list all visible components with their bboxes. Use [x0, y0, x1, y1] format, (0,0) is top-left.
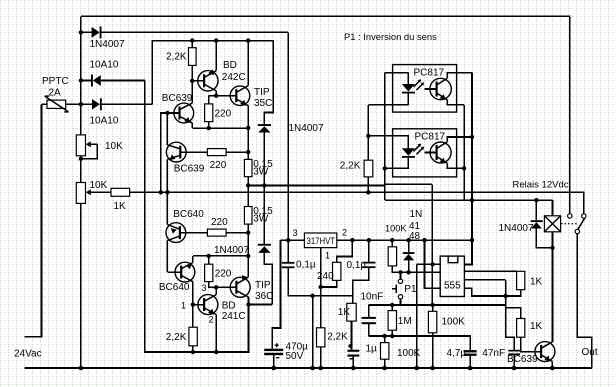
relay contact C common terminal — [575, 229, 579, 233]
LED of U1 — [402, 73, 415, 105]
node: bus junction dots — [79, 30, 84, 370]
node: U2 emitter junction on x=464 — [462, 166, 466, 170]
diode D5 1N4148 — [403, 240, 415, 274]
node: rail y=40.6 dots — [190, 38, 250, 42]
svg-text:2,2K: 2,2K — [166, 52, 187, 63]
svg-text:47nF: 47nF — [482, 348, 505, 359]
wire: control rail y=192.3 to relay contact B — [130, 192, 584, 214]
svg-text:Out: Out — [582, 347, 598, 358]
node: D6 top dot — [534, 198, 538, 202]
svg-text:10A10: 10A10 — [90, 59, 119, 70]
svg-text:PC817: PC817 — [414, 68, 445, 79]
svg-text:2A: 2A — [49, 88, 62, 99]
wire: 555 left pin y=264.3 from ground leg — [417, 264, 441, 368]
svg-text:10K: 10K — [105, 141, 123, 152]
svg-text:3: 3 — [293, 228, 298, 238]
node: ground leg rail dot — [414, 366, 419, 371]
resistor R1 1K horizontal — [111, 188, 130, 196]
node: y=128 dots — [207, 126, 251, 131]
light arrows U2 — [414, 144, 425, 155]
resistor R15 100K top — [388, 240, 408, 272]
svg-text:PPTC: PPTC — [42, 76, 69, 87]
node: Q2 emitter column dot at 220 row — [246, 150, 250, 154]
node: BD242C base junction — [190, 79, 194, 83]
wire: 555 output pin y=279.9 — [464, 280, 514, 350]
svg-text:BC640: BC640 — [173, 209, 204, 220]
capacitor C1 0,1u on x=288.2 — [282, 262, 353, 296]
node: Q1 collector / Q2 base junction — [209, 94, 237, 98]
resistor R19 1K to Q9 base — [506, 308, 541, 352]
resistor R17 1K upper right — [506, 271, 525, 296]
node: RC row dots — [390, 303, 435, 307]
resistor R8 220 vertical — [205, 256, 237, 287]
resistor R7 220 horizontal — [207, 229, 248, 236]
svg-text:241C: 241C — [222, 311, 246, 322]
svg-text:1M: 1M — [398, 316, 412, 327]
phototransistor of U1 — [425, 73, 473, 105]
label Q8: TIP 36C — [255, 280, 273, 302]
label Q1: BD 242C — [222, 60, 246, 83]
node: output node junction — [246, 302, 272, 306]
phototransistor of U2 — [425, 137, 473, 168]
timer U4 555 box — [440, 256, 464, 296]
LED of U2 — [368, 136, 415, 169]
node: y=185.4 dots — [246, 183, 267, 187]
svg-text:10A10: 10A10 — [90, 115, 119, 126]
svg-text:10nF: 10nF — [361, 292, 384, 303]
svg-text:1N4007: 1N4007 — [90, 39, 125, 50]
potentiometer RV1 10K — [76, 135, 97, 159]
relay contact lever — [578, 218, 585, 230]
svg-text:1N4007: 1N4007 — [289, 123, 324, 134]
label Q7: BD 241C — [222, 301, 246, 322]
node: y=255.9 dots — [207, 254, 211, 258]
relay contact B terminal — [582, 214, 586, 218]
wire: relay coil bottom to Q9 collector — [550, 232, 554, 342]
svg-text:TIP: TIP — [255, 280, 271, 291]
node: output row y=352 dots — [191, 350, 219, 354]
svg-text:48: 48 — [409, 231, 421, 242]
svg-text:100K: 100K — [385, 223, 407, 233]
transistor Q1 BD242C (PNP) — [192, 41, 218, 96]
resistor R9 2,2K — [189, 305, 197, 352]
wire: relay drive row y=199.8 — [385, 200, 553, 216]
wire: second rail y=40.6 with left drop to D3 and right drop to D4a — [152, 41, 273, 125]
transistor Q5 BC640 upper (PNP, mirrored base right) — [166, 192, 207, 272]
svg-text:0,1µ: 0,1µ — [347, 260, 367, 271]
transistor Q4 BC639 lower (NPN, mirrored base right) — [166, 142, 207, 162]
svg-text:1K: 1K — [530, 277, 543, 288]
svg-text:1N: 1N — [410, 209, 423, 220]
regulator U3 317HVT — [304, 233, 336, 248]
node: y=336 dots — [382, 334, 394, 338]
wire: U1 LED anode route down left side — [385, 73, 409, 201]
label C2: 470u 50V — [286, 342, 309, 362]
label R5: 0,15 3W — [253, 159, 273, 178]
svg-text:BC639: BC639 — [174, 164, 205, 175]
svg-text:1µ: 1µ — [366, 344, 378, 355]
capacitor C5 10nF — [362, 305, 376, 336]
svg-text:24Vac: 24Vac — [14, 349, 42, 360]
capacitor C4 1u electrolytic — [347, 344, 359, 370]
svg-text:BC640: BC640 — [159, 282, 190, 293]
svg-text:10K: 10K — [90, 180, 108, 191]
svg-text:1K: 1K — [114, 201, 127, 212]
transistor Q6 BC640 lower (PNP) — [167, 256, 248, 305]
svg-text:1: 1 — [181, 301, 186, 311]
resistor R16 2,2K opto series — [364, 134, 373, 193]
relay actuation dashed link — [561, 223, 577, 225]
svg-text:P1: P1 — [404, 284, 417, 295]
svg-text:1N4007: 1N4007 — [499, 223, 534, 234]
wire: U3 pin1 adjust vertical — [319, 248, 323, 328]
optocoupler U2 PC817 box — [393, 129, 457, 177]
svg-text:4,7µ: 4,7µ — [447, 348, 467, 359]
svg-text:1: 1 — [325, 251, 330, 261]
svg-text:50V: 50V — [286, 351, 304, 362]
svg-text:3: 3 — [202, 283, 207, 293]
label F1: PPTC 2A — [42, 76, 69, 99]
node: Q8 emitter column dots — [246, 230, 250, 258]
diode D4b 1N4007 freewheel lower — [258, 185, 272, 304]
wire: x=167.4 vertical through Q4 — [166, 113, 168, 192]
svg-text:242C: 242C — [222, 72, 246, 83]
svg-text:220: 220 — [215, 109, 232, 120]
resistor R4 220 horizontal — [207, 149, 248, 156]
resistor R11 2,2K bottom of adjust — [317, 328, 325, 371]
svg-text:BC639: BC639 — [162, 93, 193, 104]
diode D3 10A10 lower (pointing right) — [66, 98, 153, 110]
resistor R6 0,15 3W lower — [244, 185, 252, 277]
resistor R2 2,2K — [189, 41, 197, 81]
fuse F1 PPTC 2A — [42, 96, 69, 112]
capacitor C7 47nF — [508, 350, 520, 371]
wire: +12V rail y=240.2 from U3 pin2 — [337, 239, 472, 241]
wire: 555 left pin y=288.2 reset from +12V — [425, 240, 441, 288]
relay contact A terminal — [568, 214, 572, 218]
wire: 555 right pin y=288.2 jog — [464, 288, 505, 296]
transistor Q8 TIP36C (PNP) — [230, 275, 250, 304]
node: jog dot and pin8 drop dot — [470, 198, 474, 202]
wire: output loop from D2 down and across to TIP36C collector node — [145, 81, 249, 353]
svg-text:555: 555 — [444, 281, 461, 292]
node: control rail junction dots — [159, 190, 371, 194]
svg-text:220: 220 — [215, 269, 232, 280]
svg-text:220: 220 — [210, 160, 227, 171]
wire: opto LED return jog to x=432.6 and down — [385, 184, 432, 305]
node: Q7 collector / Q8 base junction — [214, 285, 218, 289]
svg-text:P1 : Inversion du sens: P1 : Inversion du sens — [344, 31, 437, 42]
svg-text:240: 240 — [317, 271, 334, 282]
capacitor C3 0,1u output side — [353, 240, 376, 303]
node: U2 collector junction on x=472 — [470, 135, 474, 139]
resistor R13 1M — [388, 305, 396, 336]
wire: opto collectors vertical x=472 — [464, 73, 472, 265]
wire: 555 right pin y=271.3 to 1K — [464, 270, 516, 272]
svg-text:1K: 1K — [530, 321, 543, 332]
transistor Q9 BC639 (NPN) — [535, 342, 555, 371]
node: Q6 collector / Q7 base junction — [191, 302, 195, 306]
svg-text:Relais 12Vdc: Relais 12Vdc — [513, 179, 569, 190]
diode D4a 1N4007 freewheel upper — [258, 124, 271, 185]
svg-text:2,2K: 2,2K — [166, 332, 187, 343]
transistor Q2 TIP35C (NPN) — [230, 41, 250, 128]
resistor R12 1K — [347, 303, 356, 349]
svg-text:2: 2 — [342, 228, 347, 238]
svg-text:2,2K: 2,2K — [340, 160, 361, 171]
svg-text:2,2K: 2,2K — [327, 331, 348, 342]
wire: RC node row y=305 — [369, 304, 506, 306]
wire: Out riser from contact C — [577, 234, 592, 368]
svg-text:36C: 36C — [255, 291, 273, 302]
relay K1 coil — [544, 216, 560, 232]
svg-text:PC817: PC817 — [415, 132, 446, 143]
potentiometer RV2 10K — [76, 183, 111, 204]
svg-text:1N4007: 1N4007 — [214, 245, 249, 256]
label Q2: TIP 35C — [254, 87, 272, 109]
resistor R18 100K timing — [428, 305, 436, 370]
svg-text:100K: 100K — [442, 317, 466, 328]
resistor R5 0,15 3W upper — [244, 128, 252, 185]
wire: y=336 row to 4,7u — [369, 336, 470, 350]
label R6: 0,15 3W — [253, 206, 273, 225]
svg-text:3W: 3W — [253, 214, 269, 225]
svg-text:0,1µ: 0,1µ — [296, 259, 316, 270]
wire: opto emitters vertical x=464 with jog — [463, 105, 465, 200]
svg-text:220: 220 — [211, 217, 228, 228]
wire: U3 pin3 input wire and drop to 470u — [272, 238, 304, 349]
capacitor C2 470u 50V electrolytic — [264, 343, 283, 370]
diode D6 1N4007 relay — [531, 200, 553, 248]
node: 555 pin2/6 column dots — [430, 262, 434, 266]
svg-text:317HVT: 317HVT — [307, 236, 336, 246]
svg-text:3W: 3W — [253, 167, 269, 178]
wire: mid node y=185.4 — [248, 185, 385, 187]
wire: top +supply rail from bus to relay contact A — [81, 16, 570, 213]
svg-text:BD: BD — [223, 60, 237, 71]
svg-text:BC639: BC639 — [507, 354, 538, 365]
diode D1 1N4007 top — [81, 26, 288, 38]
node: LED1 anode to LED2 cathode junction — [383, 166, 387, 170]
transistor Q3 BC639 upper (NPN) — [161, 81, 194, 193]
node: +12V rail dots — [350, 238, 474, 242]
svg-text:1K: 1K — [338, 307, 351, 318]
wire: U1 LED cathode route to 2,2K node — [368, 105, 408, 136]
pushbutton P1 — [392, 270, 403, 305]
svg-text:2: 2 — [209, 315, 214, 325]
wire: rectified +supply drop x=288.2 — [287, 32, 289, 262]
wire: trigger row y=272.3 into 555 — [409, 271, 441, 273]
node: ground drop from 0,1u bottom wire — [310, 294, 315, 371]
transistor Q7 BD241C (NPN) — [193, 287, 218, 352]
resistor R3 220 vertical — [205, 96, 213, 128]
capacitor C6 4,7u — [464, 350, 477, 370]
diode D2 10A10 upper (pointing left) — [81, 75, 145, 87]
resistor R14 100K — [381, 336, 389, 370]
optocoupler U1 PC817 box — [393, 65, 457, 113]
wire: 24Vac input terminal 1 — [24, 104, 41, 336]
wire: left vertical bus x=81 — [80, 16, 82, 368]
svg-text:TIP: TIP — [254, 87, 270, 98]
resistor R10 240 — [321, 240, 353, 287]
label D5: 1N 41 48 — [409, 209, 422, 242]
light arrows U1 — [414, 79, 425, 90]
wire: bottom ground rail — [24, 367, 592, 369]
svg-text:35C: 35C — [254, 98, 272, 109]
wire: y=128 from Q3 emitter to Q2 emitter node — [192, 127, 248, 129]
